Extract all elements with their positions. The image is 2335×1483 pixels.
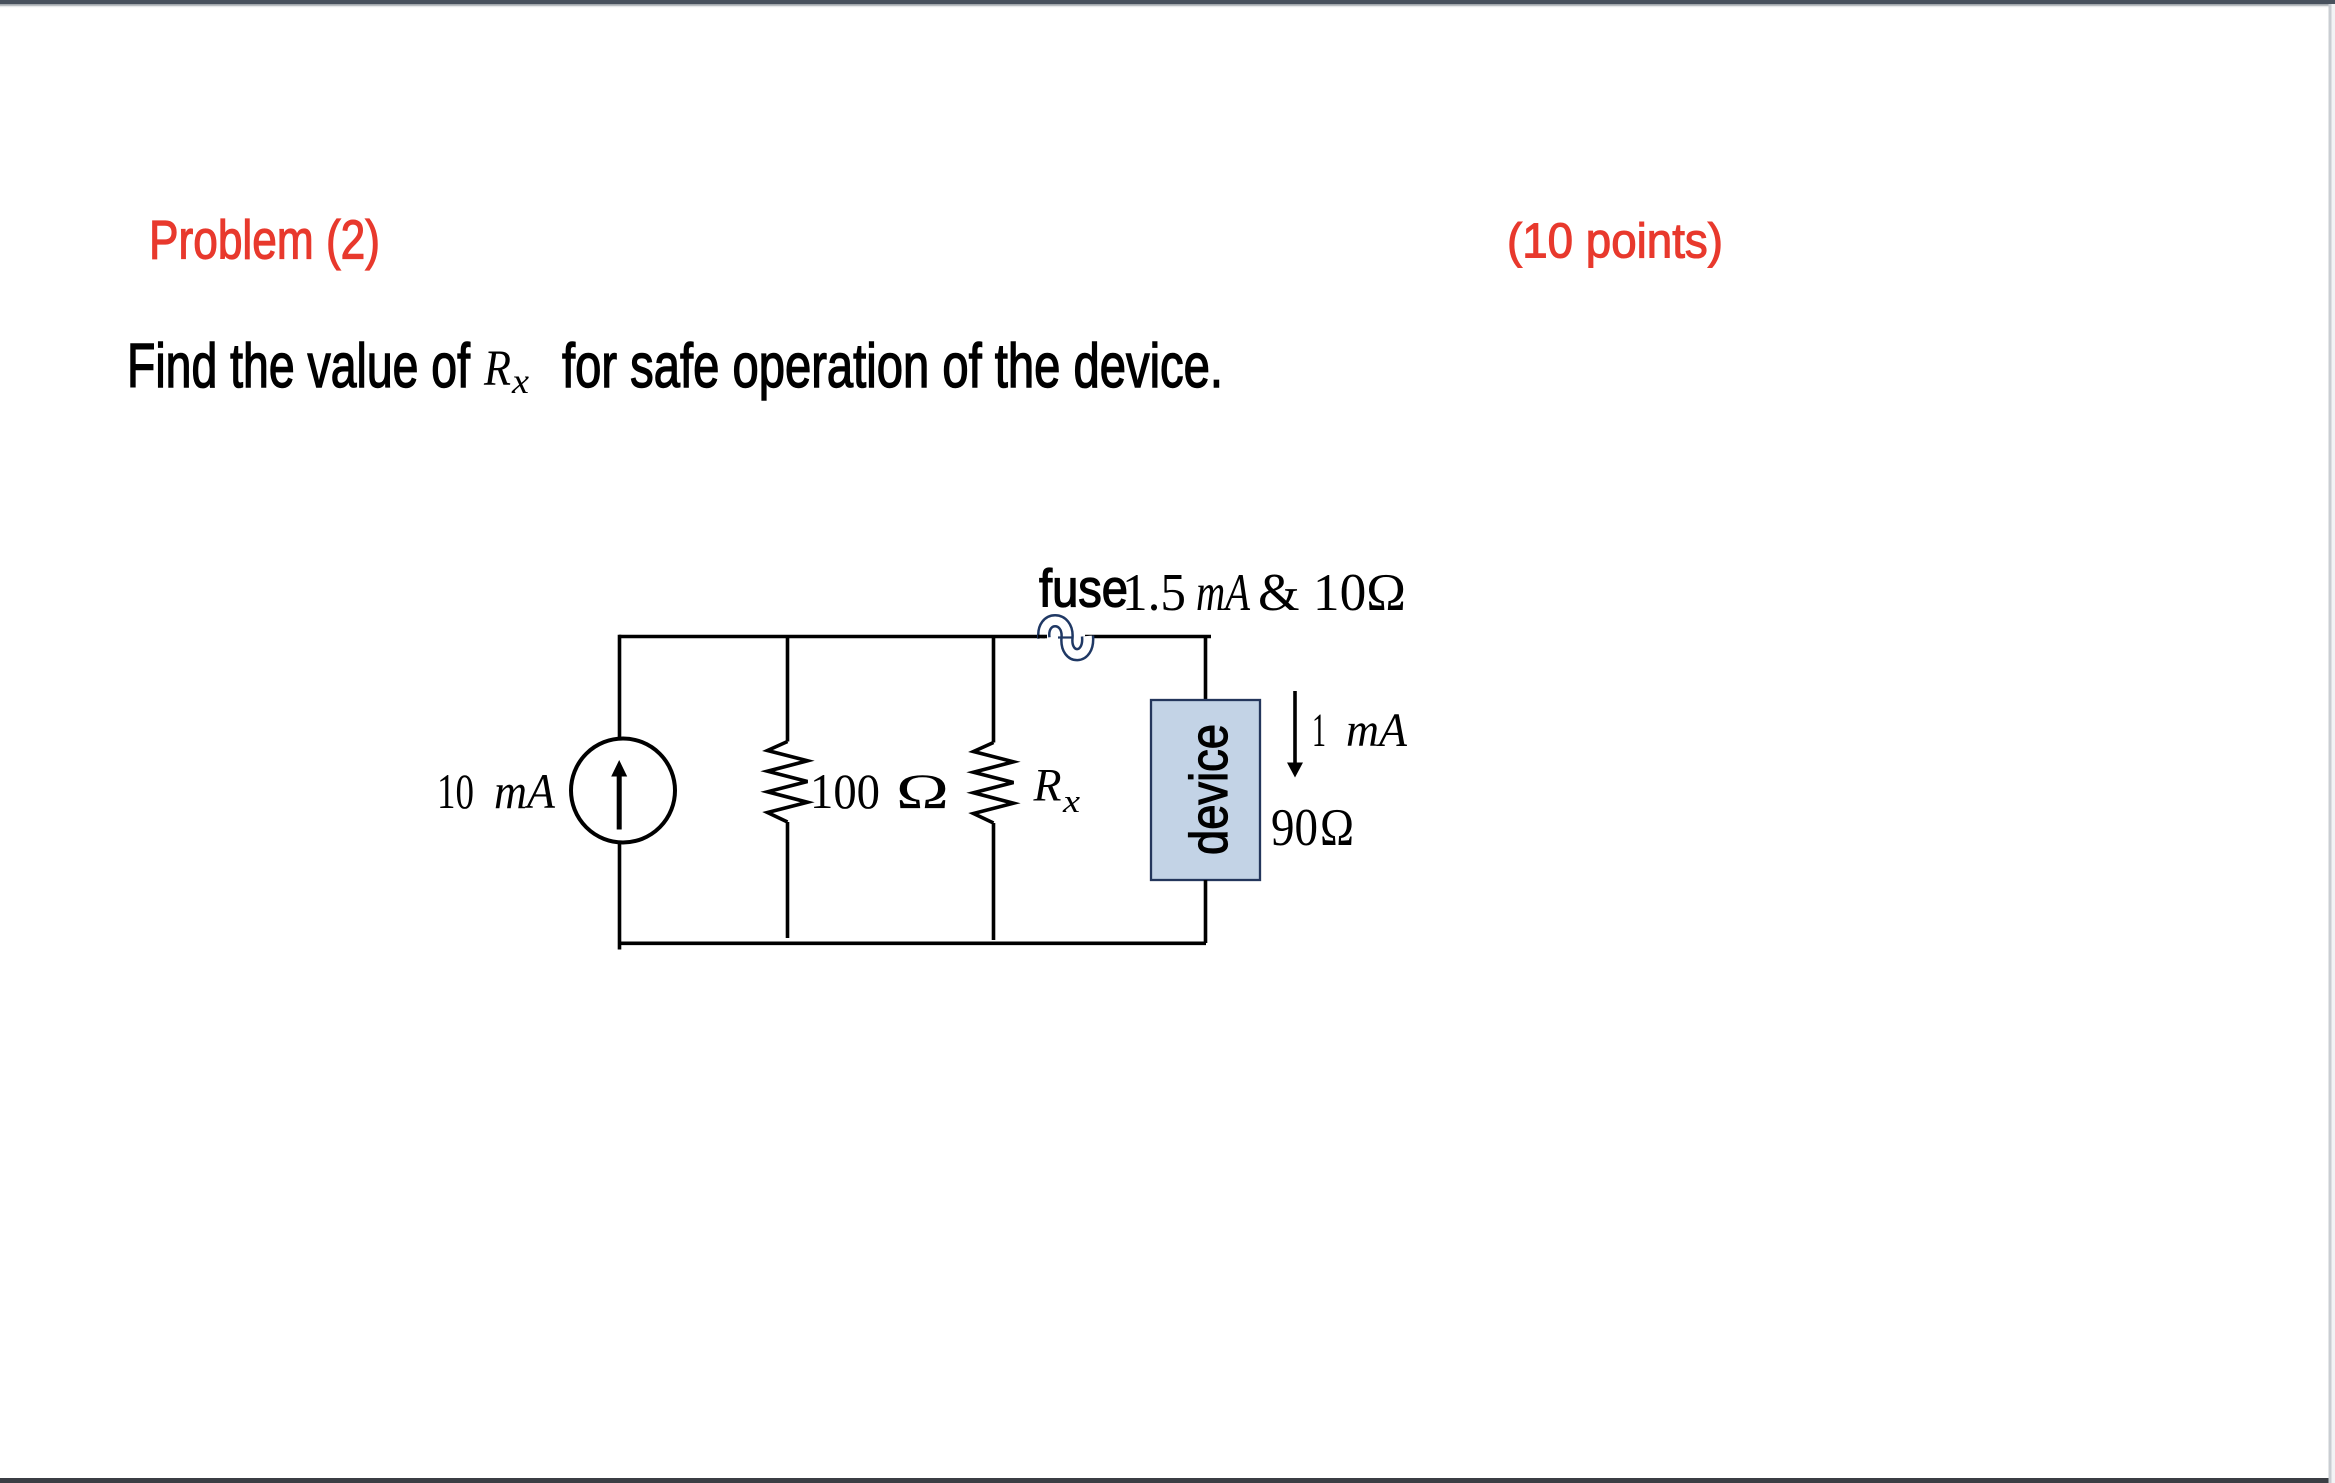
- resistor R1 100ohm lower wire: [786, 822, 790, 938]
- wire left vertical upper: [618, 635, 622, 740]
- device box: [1151, 700, 1260, 880]
- svg-text:x: x: [1062, 784, 1081, 820]
- svg-text:Ω: Ω: [896, 763, 949, 819]
- question sentence Rx variable: [483, 341, 529, 401]
- svg-text:mA: mA: [1196, 564, 1250, 622]
- wire stub entering fuse: [1038, 635, 1047, 639]
- resistor Rx branch upper wire: [992, 637, 996, 743]
- svg-text:Find the value of: Find the value of: [127, 332, 471, 401]
- svg-text:1: 1: [1312, 704, 1326, 757]
- label 10 mA: [437, 763, 555, 819]
- svg-text:for safe operation of the devi: for safe operation of the device.: [562, 332, 1223, 401]
- fuse F1 symbol: [1044, 621, 1088, 655]
- svg-text:fuse: fuse: [1039, 560, 1128, 619]
- current source I1 arrow: [611, 760, 627, 830]
- resistor R1 100ohm branch upper wire: [786, 637, 790, 742]
- wire top right segment: [1085, 635, 1211, 639]
- svg-text:mA: mA: [494, 763, 555, 819]
- svg-text:R: R: [1033, 760, 1062, 812]
- label 100 ohm: [810, 763, 949, 819]
- label Rx: [1033, 760, 1081, 821]
- bottom window bar: [0, 1478, 2335, 1483]
- wire top left segment: [619, 635, 1045, 639]
- label 1.5 mA & 10ohm: [1122, 564, 1406, 622]
- label 90 ohm: [1271, 799, 1354, 857]
- svg-text:mA: mA: [1346, 704, 1408, 757]
- svg-text:(10 points): (10 points): [1507, 215, 1723, 269]
- wire right vertical upper: [1204, 637, 1208, 702]
- svg-text:& 10Ω: & 10Ω: [1258, 564, 1406, 622]
- svg-text:1.5: 1.5: [1122, 564, 1186, 622]
- svg-text:90: 90: [1271, 799, 1318, 857]
- resistor R1 100ohm zigzag: [768, 742, 808, 823]
- resistor Rx zigzag: [974, 743, 1014, 824]
- wire bottom: [618, 941, 1206, 945]
- wire left vertical lower: [618, 841, 622, 950]
- svg-text:Ω: Ω: [1320, 799, 1354, 857]
- svg-text:device: device: [1180, 724, 1239, 855]
- svg-text:100: 100: [810, 763, 880, 819]
- current arrow 1 mA: [1287, 691, 1303, 778]
- svg-text:R: R: [483, 341, 511, 397]
- svg-text:10: 10: [437, 763, 474, 819]
- svg-text:Problem (2): Problem (2): [149, 209, 380, 271]
- top window bar: [0, 0, 2335, 7]
- current source I1 circle: [571, 739, 675, 843]
- label 1 mA: [1312, 704, 1408, 757]
- svg-text:x: x: [511, 361, 529, 401]
- resistor Rx lower wire: [992, 823, 996, 940]
- right page separator line: [2329, 4, 2335, 1483]
- wire device to bottom: [1204, 880, 1208, 943]
